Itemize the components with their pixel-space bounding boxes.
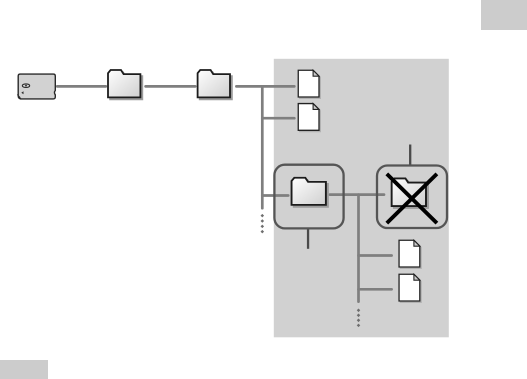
wire: middle vertical trunk (357, 195, 360, 302)
right rounded box (377, 166, 447, 229)
file 1 (298, 70, 320, 98)
dark stub below left box (307, 228, 309, 248)
left rounded box (274, 165, 343, 229)
wire: branch to file 3 (359, 254, 392, 257)
memory card (17, 74, 55, 99)
wire: branch to file 2 (262, 117, 294, 120)
folder A (first row) (108, 70, 142, 99)
folder B (first row) (198, 70, 232, 99)
folder inside left box (292, 178, 328, 207)
file 2 (298, 104, 320, 132)
wire: folder A to folder B (146, 85, 196, 88)
wire: left box to right box (330, 193, 384, 196)
wire: branch to file 4 (359, 288, 392, 291)
dotted continuation of middle trunk (357, 309, 361, 328)
wire: folder B to branch trunk and file 1 (236, 85, 294, 88)
wire: branch to left rounded box (262, 194, 288, 197)
file 3 (399, 240, 421, 268)
file 4 (399, 274, 421, 302)
wire: left vertical trunk (261, 86, 264, 208)
gray panel background (274, 59, 449, 338)
folder inside right box (392, 178, 428, 208)
wire: card to folder A (57, 85, 106, 88)
dotted continuation of left trunk (261, 214, 265, 234)
bottom-left page tab (0, 360, 48, 379)
dark wire above right box (409, 145, 411, 167)
top-right page tab (481, 0, 527, 30)
X cross over right folder (387, 174, 437, 223)
